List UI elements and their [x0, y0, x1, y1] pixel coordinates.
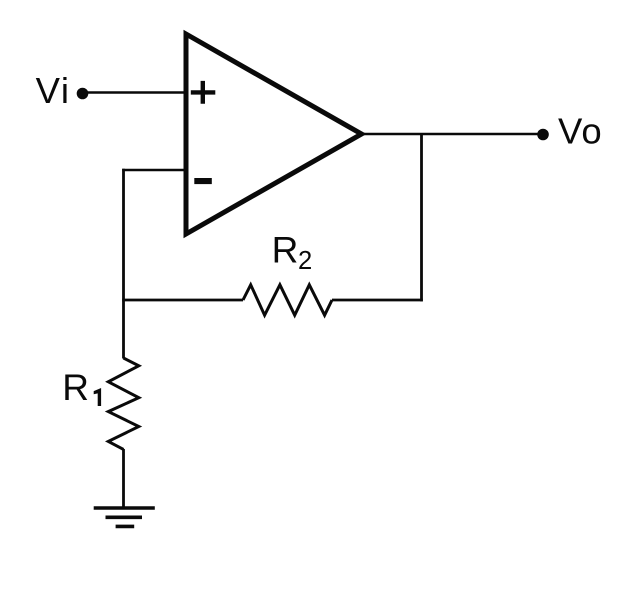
- resistor R2: [243, 285, 332, 315]
- ground symbol: [94, 508, 155, 526]
- wire: output branch vertical: [420, 134, 423, 301]
- wire: inverting input horizontal: [122, 169, 187, 172]
- wire: feedback junction horizontal to R2: [122, 299, 243, 302]
- resistor R1: [108, 358, 139, 449]
- svg-text:2: 2: [298, 247, 312, 275]
- wire: R1 to ground: [122, 449, 125, 508]
- op-amp non-inverting (+) input marker: [191, 81, 216, 104]
- svg-text:Vo: Vo: [558, 111, 603, 152]
- wire: feedback vertical (inverting input down to R1): [122, 169, 125, 359]
- node: Vo output terminal dot: [537, 129, 549, 141]
- label R1 subscript: [94, 388, 101, 406]
- svg-text:R: R: [62, 367, 89, 408]
- node: Vi input terminal dot: [77, 88, 89, 100]
- svg-text:Vi: Vi: [36, 70, 71, 111]
- wire: op-amp output to Vo: [362, 133, 543, 136]
- wire: Vi input to + input: [83, 91, 188, 94]
- wire: R2 to output branch: [332, 299, 423, 302]
- op-amp inverting (-) input marker: [194, 178, 212, 184]
- svg-text:R: R: [272, 230, 299, 271]
- op-amp U1: [186, 34, 362, 234]
